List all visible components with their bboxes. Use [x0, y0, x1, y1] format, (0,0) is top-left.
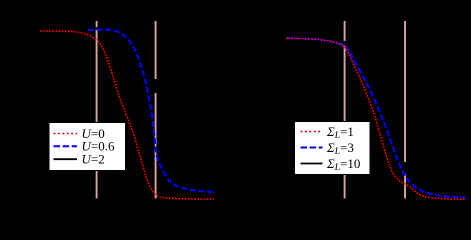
left panel vertical marker line 1	[96, 21, 98, 199]
right panel vertical marker line 1	[344, 21, 346, 199]
left legend black solid sample	[54, 158, 78, 160]
left legend box	[49, 123, 126, 171]
red dotted curve U=0 left panel	[40, 31, 214, 199]
black U=2 curve visible crossing left line 2	[154, 79, 156, 93]
svg-text:U=2: U=2	[82, 152, 105, 167]
blue dashed curve SigmaL=3 right panel	[286, 38, 465, 198]
right legend box	[295, 122, 371, 175]
red dotted curve SigmaL=1 right panel	[286, 38, 465, 199]
right legend red dotted sample	[301, 131, 323, 133]
right panel vertical marker line 2	[404, 21, 406, 199]
svg-text:ΣL=1: ΣL=1	[326, 124, 354, 141]
left panel vertical marker line 2	[155, 21, 157, 199]
right legend black solid sample	[301, 163, 323, 165]
left legend red dotted sample	[54, 133, 78, 135]
black U=2 curve visible crossing left line 1	[95, 27, 97, 29]
black curve visible crossing right line 1	[343, 41, 345, 46]
svg-text:ΣL=10: ΣL=10	[326, 156, 360, 173]
svg-text:ΣL=3: ΣL=3	[326, 140, 354, 157]
blue dashed curve U=0.6 left panel	[88, 30, 214, 192]
black curve visible crossing right line 2	[404, 162, 406, 174]
right legend blue dashed sample	[301, 147, 323, 149]
left legend blue dashed sample	[54, 145, 78, 147]
